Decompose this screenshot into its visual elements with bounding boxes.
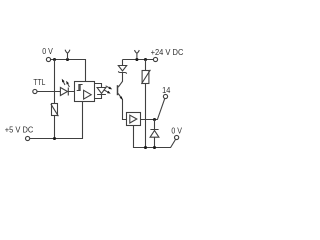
transistor Q1 phototransistor xyxy=(117,85,119,95)
terminal 0V left xyxy=(46,57,50,61)
terminal TTL xyxy=(33,89,37,93)
wire TTL input xyxy=(37,91,60,93)
schmitt hysteresis glyph xyxy=(77,85,83,91)
node junction 0V/varistor branch xyxy=(53,58,56,61)
wire +5V rail to box bottom xyxy=(30,102,83,139)
node junction 24V/fork xyxy=(135,58,138,61)
node junction rail/varistor xyxy=(144,146,147,149)
wire varistor to +5V rail xyxy=(54,116,56,139)
svg-text:14: 14 xyxy=(162,85,171,95)
plug fork symbol left xyxy=(65,50,70,60)
svg-text:0 V: 0 V xyxy=(171,125,182,135)
node junction output/diode xyxy=(153,118,156,121)
wire 0V down to varistor xyxy=(54,60,56,104)
wire +24V rail xyxy=(123,59,154,61)
node junction 24V/varistor xyxy=(144,58,147,61)
node junction 0V/fork xyxy=(66,58,69,61)
wire 0V rail to box top xyxy=(51,60,86,82)
plug fork symbol right xyxy=(135,50,140,59)
node junction rail/diode xyxy=(153,146,156,149)
svg-text:0 V: 0 V xyxy=(42,46,53,56)
svg-text:+5 V DC: +5 V DC xyxy=(5,124,34,134)
LED D1 input indicator xyxy=(60,88,74,96)
LED D2 opto emitter xyxy=(97,88,106,95)
node junction +5V/varistor xyxy=(53,137,56,140)
op-amp U1 input box xyxy=(75,82,95,102)
wire 0V output rail xyxy=(134,126,176,148)
wire output to terminal 14 xyxy=(141,99,165,120)
varistor V2 xyxy=(145,60,147,148)
buffer triangle U1 xyxy=(84,90,92,99)
op-amp U2 output driver xyxy=(127,113,141,126)
diode D3 series protection zener xyxy=(118,60,126,74)
terminal 14 xyxy=(163,94,167,98)
terminal +5V xyxy=(26,136,30,140)
diode D4 freewheel xyxy=(150,120,159,148)
varistor V1 xyxy=(52,104,58,116)
light arrows opto xyxy=(106,86,111,89)
svg-text:+24 V DC: +24 V DC xyxy=(151,47,184,57)
terminal 0V right xyxy=(175,135,179,139)
wire LED loop xyxy=(95,84,102,99)
terminal +24V xyxy=(153,57,157,61)
svg-text:TTL: TTL xyxy=(33,77,45,87)
